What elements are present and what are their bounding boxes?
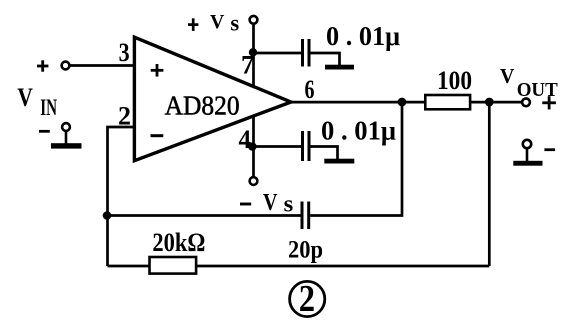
svg-text:V: V: [210, 11, 224, 33]
wire feedback right vertical: [488, 102, 491, 266]
svg-text:AD820: AD820: [165, 90, 240, 120]
capacitor C2 0.01u: [303, 131, 310, 161]
resistor R2 20k: [150, 228, 206, 274]
wire pin4 rail to -Vs: [252, 116, 255, 178]
svg-text:V: V: [263, 190, 278, 216]
node junction feedback/pin2: [103, 211, 112, 220]
capacitor C3 20p: [302, 202, 309, 230]
label Vin minus sign: [39, 130, 50, 133]
svg-text:100: 100: [437, 65, 472, 95]
label VIN: [17, 83, 57, 121]
op-amp + input mark: [151, 64, 164, 77]
wire pin3 input: [69, 64, 135, 67]
wire C1 to ground: [311, 53, 340, 65]
svg-text:3: 3: [119, 38, 130, 67]
wire feedback to C3: [108, 214, 302, 217]
svg-text:4: 4: [239, 125, 252, 154]
label Vout minus sign: [544, 148, 555, 151]
op-amp U1 AD820: [134, 37, 291, 161]
figure number 2: [290, 278, 325, 320]
svg-text:s: s: [230, 10, 239, 35]
svg-text:6: 6: [305, 75, 315, 104]
ground C1: [325, 65, 354, 70]
wire output: [290, 101, 522, 104]
svg-text:2: 2: [299, 278, 315, 320]
label VOUT: [500, 64, 558, 101]
svg-text:0 . 01μ: 0 . 01μ: [326, 21, 400, 51]
node -Vs terminal: [250, 177, 258, 185]
svg-text:20p: 20p: [288, 237, 323, 264]
node Vin- terminal: [62, 123, 70, 131]
resistor R1 100: [425, 65, 472, 109]
node Vout- terminal: [523, 140, 531, 148]
label +Vs: [188, 10, 239, 35]
svg-text:V: V: [17, 83, 33, 112]
node junction +Vs/C1: [249, 48, 257, 56]
svg-text:20kΩ: 20kΩ: [152, 228, 205, 257]
wire C2 to ground: [311, 147, 338, 160]
ground Vout: [513, 148, 542, 166]
node junction Vout/feedback: [485, 98, 494, 107]
svg-text:2: 2: [118, 102, 131, 131]
node Vout+ terminal: [522, 98, 530, 106]
svg-text:s: s: [284, 191, 294, 217]
label -Vs: [240, 190, 293, 217]
wire pin4 to C2: [254, 145, 302, 148]
ground Vin: [51, 131, 82, 149]
node +Vs terminal: [250, 16, 258, 24]
wire C3 to output node: [310, 102, 402, 216]
node Vin+ terminal: [62, 62, 70, 70]
label Vin plus sign: [37, 60, 48, 71]
op-amp - input mark: [151, 134, 164, 137]
svg-text:0 . 01μ: 0 . 01μ: [321, 116, 396, 146]
capacitor C1 0.01u: [303, 39, 310, 67]
svg-text:IN: IN: [40, 95, 57, 121]
ground C2: [324, 159, 354, 164]
label Vout plus sign: [542, 96, 556, 109]
node junction pin4/C2: [248, 142, 257, 151]
wire +Vs rail to pin7: [252, 24, 255, 87]
wire +Vs to C1: [254, 52, 302, 55]
wire bottom: [108, 265, 490, 268]
svg-text:OUT: OUT: [517, 79, 559, 101]
wire pin2 input: [108, 127, 136, 266]
node junction output/C3: [398, 98, 407, 107]
svg-text:V: V: [500, 64, 514, 88]
